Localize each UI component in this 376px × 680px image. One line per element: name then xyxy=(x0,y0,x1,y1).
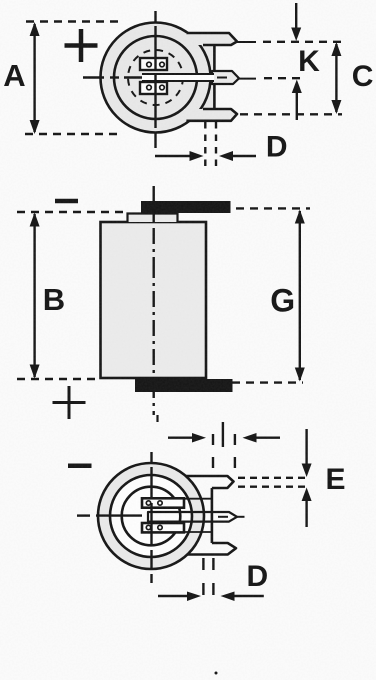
pin span extension lines (bottom view top) xyxy=(213,434,235,470)
label B xyxy=(43,282,65,317)
label D (top view) xyxy=(266,131,288,164)
dimension E lower arrow xyxy=(302,488,312,528)
dimension A arrow xyxy=(30,22,40,134)
pin extension line bottom xyxy=(240,113,342,115)
plus polarity mark (side view) xyxy=(53,386,86,419)
bottom standoff prong (bottom view) xyxy=(187,543,236,555)
extension line bottom (A) xyxy=(25,133,118,135)
extension line G bottom xyxy=(232,381,303,383)
inner circle (bottom view) xyxy=(122,487,181,546)
standoff extension lines (E) xyxy=(238,478,310,487)
lead dia extension lines (bottom view D) xyxy=(203,558,213,600)
minus polarity mark (side view) xyxy=(55,199,78,204)
dimension K lower arrow xyxy=(292,80,302,121)
dimension K upper arrow xyxy=(291,3,301,41)
label K xyxy=(298,45,320,78)
upper terminal plate (bottom view) xyxy=(142,498,212,507)
extension line top (A) xyxy=(26,20,122,22)
minus polarity mark (bottom view) xyxy=(68,463,92,468)
lead dia extension lines (top view D) xyxy=(205,122,216,168)
extension line G top xyxy=(236,207,310,209)
inner crimp circle (top view) xyxy=(114,36,197,119)
dashed vent circle (top view) xyxy=(128,50,183,105)
horizontal centerline (top view) xyxy=(83,76,142,78)
crimp neck (side view) xyxy=(128,214,178,223)
pin extension line middle xyxy=(239,77,301,79)
label C xyxy=(352,60,374,93)
dimension B arrow xyxy=(30,213,40,379)
centerline dash in pin (top view) xyxy=(217,77,227,79)
dimension E upper arrow xyxy=(302,429,312,477)
dimension G arrow xyxy=(295,210,305,382)
label D (bottom view) xyxy=(246,560,268,593)
middle pin (bottom view) xyxy=(148,512,237,522)
top solder pad bar (side view) xyxy=(141,201,231,213)
pin span arrows (bottom view top) xyxy=(168,433,280,443)
outer circle (bottom view) xyxy=(98,463,204,569)
pin extension line K top xyxy=(237,41,342,43)
stray tick above bottom view xyxy=(156,415,158,422)
top mounting prong (top view) xyxy=(184,33,237,45)
extension line B top xyxy=(17,211,127,213)
capacitor case outer circle (top view) xyxy=(101,23,211,133)
vertical centerline (side view) xyxy=(152,186,154,415)
middle pin (top view) xyxy=(212,71,239,84)
stray dot xyxy=(215,672,218,675)
case flat edge (bottom view) xyxy=(211,488,214,543)
capacitor body (side view) xyxy=(101,222,207,378)
lower terminal plate (bottom view) xyxy=(142,523,212,532)
vertical centerline (bottom view) xyxy=(150,452,152,583)
polarity plus mark (top view) xyxy=(65,29,98,62)
case flat edge (top view) xyxy=(213,44,216,109)
case side slab (top view) xyxy=(200,45,214,109)
pin group centerline (bottom view top) xyxy=(222,422,224,447)
middle circle (bottom view) xyxy=(110,475,192,557)
terminal band (top view) xyxy=(142,74,214,81)
dimension C arrow xyxy=(331,42,341,114)
label G xyxy=(270,282,295,318)
upper terminal plate (top view) xyxy=(140,58,167,70)
horizontal centerline (bottom view) xyxy=(77,516,245,517)
dimension D arrows (bottom view) xyxy=(158,592,264,602)
label A xyxy=(3,58,25,93)
bottom mounting prong (top view) xyxy=(184,109,237,121)
extension line B bottom xyxy=(17,378,98,380)
dimension D arrows (top view) xyxy=(155,151,256,161)
lower terminal plate (top view) xyxy=(140,82,167,94)
label E xyxy=(325,463,345,496)
bottom solder pad bar (side view) xyxy=(135,379,233,392)
top standoff prong (bottom view) xyxy=(186,476,234,488)
vertical centerline (top view) xyxy=(154,11,156,148)
